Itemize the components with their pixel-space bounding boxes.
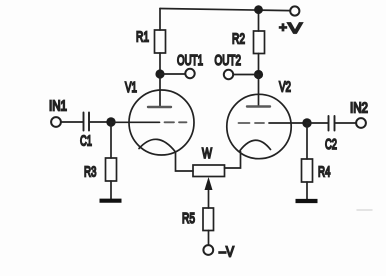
svg-text:R5: R5 <box>182 211 195 227</box>
potentiometer W body <box>193 165 225 177</box>
node grid V1 <box>106 117 115 126</box>
wire grid node to R4 <box>306 123 308 159</box>
wire IN1 to C1 <box>61 121 83 123</box>
svg-text:W: W <box>202 146 212 162</box>
ground R4 <box>296 199 318 203</box>
wire anode lead V1 <box>159 74 161 107</box>
cathode V1 <box>139 139 176 152</box>
svg-text:OUT1: OUT1 <box>177 53 203 69</box>
wire grid node to V1 grid <box>111 121 160 123</box>
wire R4 to ground <box>306 182 308 199</box>
tube V2 envelope <box>227 94 291 158</box>
terminal OUT2 <box>224 70 233 79</box>
capacitor C2 <box>329 116 335 131</box>
anode plate V2 <box>247 105 270 107</box>
wire V2 grid to node <box>269 122 307 124</box>
wire cathode V2 to potentiometer <box>225 152 241 169</box>
wire node to OUT1 terminal <box>160 73 185 75</box>
terminal IN1 <box>51 117 61 127</box>
terminal +V <box>290 6 299 15</box>
svg-text:R3: R3 <box>84 165 97 181</box>
potentiometer W wiper arrow <box>205 177 213 208</box>
svg-text:IN2: IN2 <box>350 101 368 117</box>
svg-text:OUT2: OUT2 <box>215 53 242 69</box>
svg-text:C1: C1 <box>80 134 92 150</box>
wire R5 to -V terminal <box>208 231 210 246</box>
wire C1 to grid node <box>90 121 111 123</box>
wire grid node to R3 <box>110 122 112 158</box>
wire C2 to IN2 <box>336 122 357 124</box>
wire top supply rail <box>160 9 290 11</box>
node junction top rail / R2 <box>254 5 263 14</box>
resistor R1 <box>155 30 166 53</box>
wire cathode V1 to potentiometer <box>176 152 194 171</box>
resistor R5 <box>203 208 214 231</box>
wire OUT2 terminal to node <box>233 74 258 76</box>
terminal OUT1 <box>185 69 194 78</box>
svg-text:R4: R4 <box>318 165 331 181</box>
svg-text:IN1: IN1 <box>49 99 67 115</box>
cathode V2 <box>240 140 271 150</box>
node grid V2 <box>302 118 311 127</box>
wire R2 bottom to anode node <box>258 54 260 76</box>
svg-text:V1: V1 <box>125 80 137 96</box>
terminal IN2 <box>356 118 366 128</box>
wire R1 bottom to anode node <box>159 53 161 74</box>
svg-text:V: V <box>288 21 302 37</box>
anode plate V1 <box>148 106 171 108</box>
wire anode lead V2 <box>258 75 260 107</box>
resistor R4 <box>302 159 313 182</box>
svg-text:+: + <box>279 20 287 35</box>
tube V1 envelope <box>129 90 194 155</box>
resistor R3 <box>106 158 117 181</box>
terminal -V <box>203 245 213 255</box>
svg-text:V2: V2 <box>279 80 291 96</box>
wire R1 top lead <box>159 9 161 31</box>
svg-text:–V: –V <box>219 245 234 261</box>
resistor R2 <box>254 31 265 54</box>
capacitor C1 <box>84 113 90 131</box>
svg-text:R1: R1 <box>136 30 149 46</box>
wire R3 to ground <box>110 181 112 199</box>
ground R3 <box>100 199 122 203</box>
grid V2 dashes <box>239 122 265 124</box>
wire R2 top lead <box>258 10 260 31</box>
node anode V1 / OUT1 <box>155 69 164 78</box>
node anode V2 / OUT2 <box>254 70 263 79</box>
grid V1 dashes <box>165 121 187 123</box>
svg-text:R2: R2 <box>232 32 245 48</box>
scan artifact smudge <box>357 209 372 211</box>
wire node to C2 <box>307 122 328 124</box>
svg-text:C2: C2 <box>325 137 337 153</box>
